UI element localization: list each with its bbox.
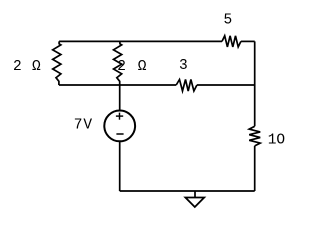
- resistor R1 2-ohm (left, vertical): [53, 41, 61, 85]
- wire from R2 bottom to voltage source top: [119, 85, 121, 111]
- svg-text:7V: 7V: [74, 117, 93, 133]
- svg-text:2: 2: [117, 59, 126, 75]
- wire bottom rail: [120, 190, 255, 192]
- resistor R2 2-ohm (middle, vertical): [114, 41, 122, 85]
- svg-text:3: 3: [179, 58, 188, 74]
- wire top rail left segment: [59, 40, 222, 42]
- resistor R4 3-ohm (middle, horizontal): [176, 80, 197, 92]
- voltage source plus sign: [116, 113, 123, 120]
- resistor R3 5-ohm (top, horizontal): [222, 36, 241, 47]
- wire top rail right segment: [241, 40, 255, 42]
- wire second rail right segment: [197, 84, 255, 86]
- svg-text:1O: 1O: [268, 133, 285, 149]
- svg-text:5: 5: [224, 13, 233, 29]
- ground stub wire: [194, 191, 196, 198]
- voltage source minus sign: [116, 133, 123, 135]
- resistor R5 10-ohm (right, vertical): [249, 126, 260, 146]
- ground triangle symbol: [185, 198, 204, 208]
- wire from voltage source bottom to bottom rail: [119, 141, 121, 191]
- voltage source V1 circle: [104, 111, 135, 142]
- svg-text:Ω: Ω: [32, 59, 41, 75]
- wire right rail lower: [254, 146, 256, 191]
- svg-text:Ω: Ω: [138, 59, 147, 75]
- wire right rail upper: [254, 41, 256, 126]
- wire second rail left segment: [59, 84, 176, 86]
- svg-text:2: 2: [13, 59, 22, 75]
